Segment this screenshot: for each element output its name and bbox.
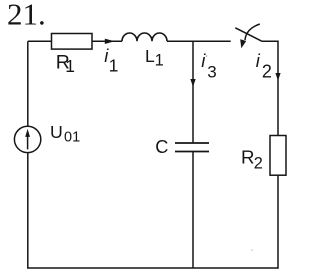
speck noise dot <box>206 55 208 57</box>
label i2 <box>256 50 272 81</box>
svg-text:i: i <box>201 50 206 71</box>
switch closing arrow arc <box>245 24 260 40</box>
label i3 <box>201 50 217 81</box>
wire capacitor to bottom <box>192 152 194 269</box>
resistor R1 <box>52 34 93 50</box>
wire R1 to L1 <box>92 40 122 42</box>
wire top-left horizontal (node A to R1) <box>28 40 52 42</box>
current arrow i3 <box>190 79 195 87</box>
wire switch to top-right corner <box>262 41 278 135</box>
svg-text:L: L <box>145 46 155 66</box>
wire L1 to switch <box>167 40 231 42</box>
inductor L1 <box>122 33 167 41</box>
wire bottom horizontal <box>28 267 279 269</box>
svg-text:2: 2 <box>254 154 263 172</box>
svg-text:R: R <box>241 147 255 168</box>
svg-text:01: 01 <box>64 129 80 145</box>
svg-text:3: 3 <box>207 62 216 81</box>
svg-text:1: 1 <box>155 52 164 70</box>
label R1 <box>56 51 75 76</box>
svg-text:1: 1 <box>109 55 119 75</box>
wire source to bottom-left corner <box>27 153 29 269</box>
svg-text:2: 2 <box>262 61 272 81</box>
svg-text:1: 1 <box>65 56 75 76</box>
label L1 <box>145 46 164 70</box>
label R2 <box>241 147 263 173</box>
label C <box>155 137 168 157</box>
resistor R2 <box>270 136 286 176</box>
current arrow i1 <box>105 39 115 44</box>
switch S (open blade) <box>235 28 262 42</box>
svg-text:i: i <box>256 50 261 71</box>
label i1 <box>104 45 118 76</box>
speck noise dot <box>251 249 253 251</box>
wire R2 to bottom-right corner <box>277 175 279 269</box>
source arrow <box>27 135 29 150</box>
wire middle branch down to capacitor <box>192 41 194 142</box>
svg-text:21.: 21. <box>7 0 46 32</box>
svg-text:C: C <box>155 137 168 157</box>
voltage source U01 <box>27 41 29 126</box>
label U01 <box>50 122 80 145</box>
problem number 21. <box>7 0 46 32</box>
switch arrowhead <box>240 39 246 48</box>
current arrow i2 <box>275 73 280 81</box>
capacitor C <box>175 142 209 144</box>
svg-text:U: U <box>50 122 63 142</box>
